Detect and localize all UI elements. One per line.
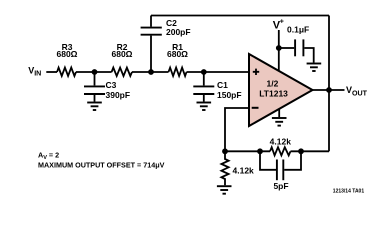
wire R3 to R2	[76, 71, 112, 73]
wire VIN to R3	[46, 71, 57, 73]
svg-text:4.12k: 4.12k	[270, 137, 292, 147]
wire top feedback run	[151, 15, 329, 17]
svg-text:0.1μF: 0.1μF	[287, 25, 309, 35]
wire op-amp output	[313, 89, 345, 91]
svg-text:AV = 2: AV = 2	[38, 151, 59, 161]
capacitor 0.1µF bypass	[279, 25, 314, 63]
resistor R5 4.12k feedback	[270, 137, 292, 156]
node VOUT label	[346, 85, 368, 97]
node V+ junction	[276, 45, 282, 51]
svg-text:4.12k: 4.12k	[233, 165, 255, 175]
ground for C1	[197, 103, 212, 111]
svg-text:C1: C1	[217, 80, 228, 90]
ground for R4	[217, 186, 232, 194]
wire R2 to R1	[132, 71, 169, 73]
wire feedback row right	[291, 150, 330, 152]
svg-text:C3: C3	[106, 80, 117, 90]
svg-text:390pF: 390pF	[106, 90, 131, 100]
svg-text:+: +	[280, 19, 284, 26]
note gain annotation	[38, 151, 165, 170]
op-amp U1 1/2 LT1213	[249, 54, 313, 126]
wire R1 to op-amp plus input	[187, 71, 250, 73]
capacitor C1 150pF	[193, 72, 241, 102]
svg-text:200pF: 200pF	[166, 27, 191, 37]
node D feedback left junction	[222, 148, 228, 154]
svg-text:VOUT: VOUT	[346, 85, 368, 97]
ground for 0.1µF	[307, 64, 322, 72]
node C junction R1/C1	[201, 69, 207, 75]
node A junction R3/R2/C3	[92, 69, 98, 75]
wire inverting input to feedback node	[225, 108, 249, 151]
capacitor 5pF parallel branch	[260, 151, 301, 191]
resistor R4 4.12k to ground	[221, 151, 254, 185]
svg-text:680Ω: 680Ω	[167, 49, 188, 59]
node B junction R2/R1/C2	[148, 69, 154, 75]
ground for C3	[87, 103, 102, 111]
node VOUT junction	[326, 87, 332, 93]
svg-text:MAXIMUM OUTPUT OFFSET = 714μV: MAXIMUM OUTPUT OFFSET = 714μV	[38, 161, 165, 170]
node E feedback mid junction	[257, 148, 263, 154]
svg-text:VIN: VIN	[28, 65, 41, 77]
wire right vertical from top to output node	[328, 16, 330, 91]
capacitor C3 390pF	[84, 72, 130, 102]
svg-text:680Ω: 680Ω	[112, 49, 133, 59]
svg-text:680Ω: 680Ω	[57, 49, 78, 59]
svg-text:1/2: 1/2	[266, 79, 278, 89]
resistor R1 680Ω	[167, 42, 188, 76]
svg-text:5pF: 5pF	[273, 181, 288, 191]
wire feedback row left	[225, 150, 270, 152]
resistor R2 680Ω	[112, 42, 133, 76]
svg-text:150pF: 150pF	[217, 90, 242, 100]
svg-text:1213/14 TA01: 1213/14 TA01	[333, 188, 365, 194]
node F feedback right junction	[298, 148, 304, 154]
capacitor C2 200pF feedback branch	[141, 16, 191, 73]
wire output node down to feedback row	[328, 90, 330, 151]
resistor R3 680Ω	[57, 42, 78, 76]
node VIN input terminal label	[28, 65, 41, 77]
svg-text:LT1213: LT1213	[259, 88, 288, 98]
ground for op-amp V- pin	[272, 109, 287, 126]
power V+ supply	[273, 19, 284, 71]
